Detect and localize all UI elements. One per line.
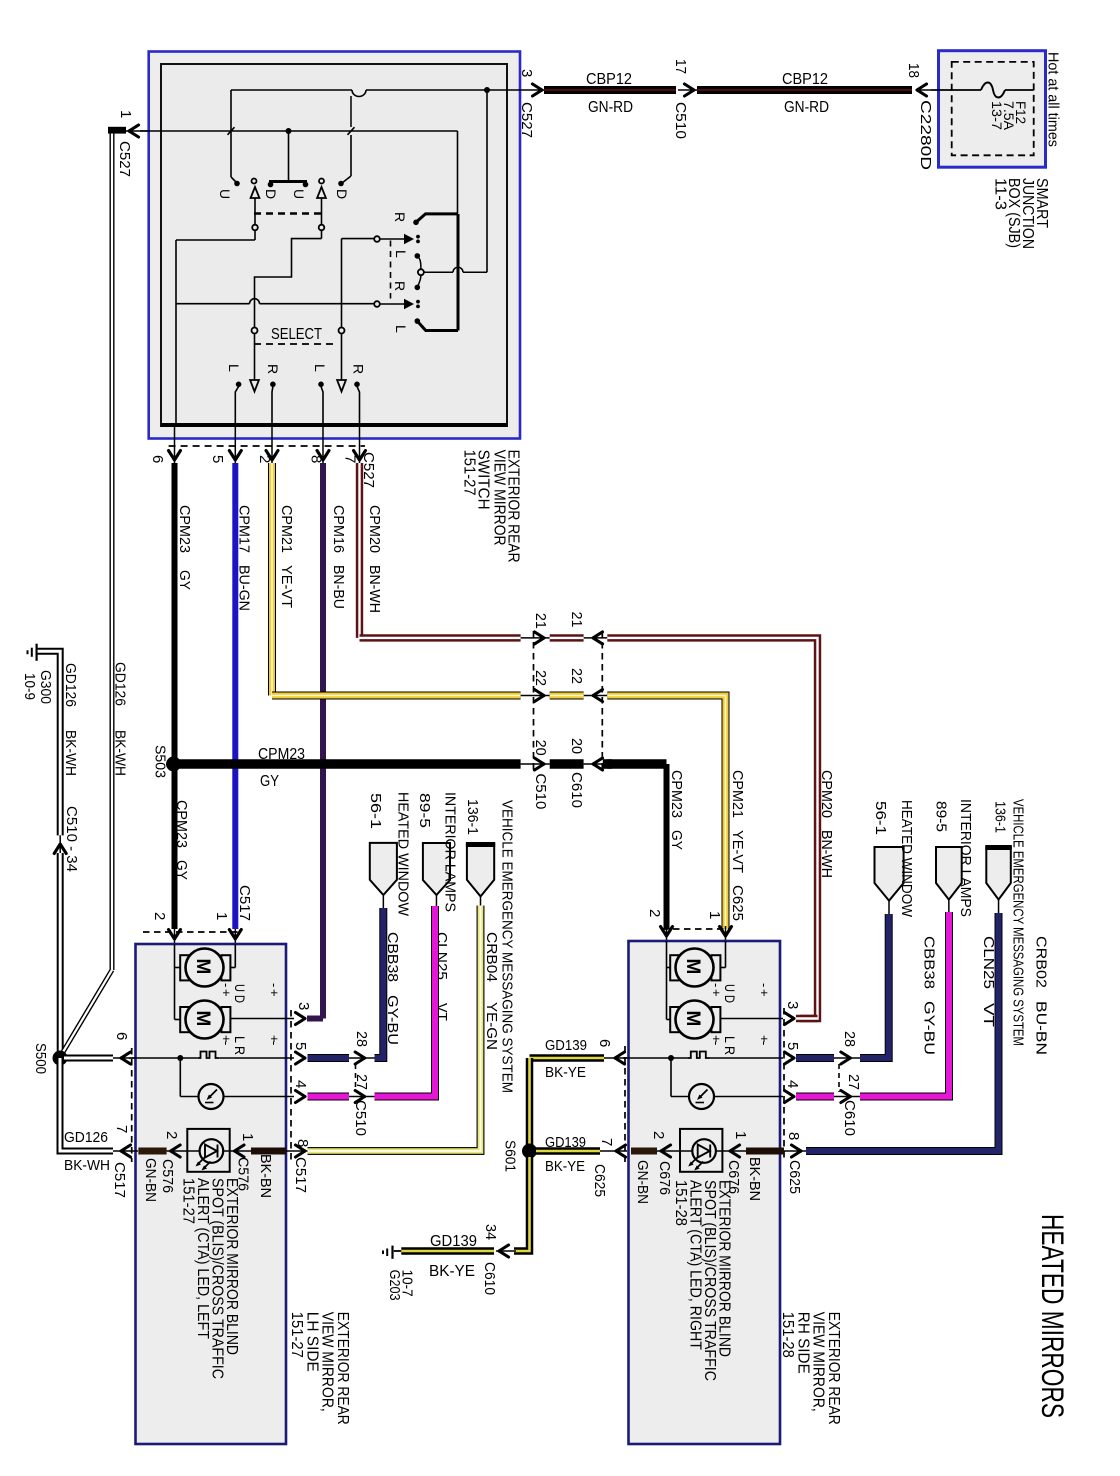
svg-text:GD126: GD126	[64, 1129, 108, 1146]
svg-text:13-7: 13-7	[989, 101, 1004, 130]
svg-text:5: 5	[209, 455, 226, 463]
RH BLIS LED box	[680, 1129, 722, 1172]
wire CRB02 BU-BN vertical	[0, 0, 1, 1]
svg-text:20: 20	[568, 738, 585, 754]
LH motor U/D	[180, 949, 230, 987]
label C676 GN-BN (RH)	[634, 1160, 673, 1204]
label 136-1 (left)	[464, 799, 481, 835]
wire CRB04 YE-GN vertical	[0, 0, 1, 1]
wire CLN25 VT (left) vertical	[0, 0, 1, 1]
label C527 below pin 7	[360, 452, 377, 488]
labels 28 (RH)	[841, 1031, 858, 1047]
label GD139 BK-YE (G203)	[429, 1233, 477, 1280]
RH motor U/D	[670, 949, 720, 987]
svg-text:1: 1	[239, 1133, 256, 1141]
LH mirror pin 3 arrow	[295, 1002, 312, 1025]
switch U/D common bracket	[268, 131, 309, 187]
svg-text:21: 21	[532, 613, 549, 629]
svg-text:VEHICLE EMERGENCY MESSAGING SY: VEHICLE EMERGENCY MESSAGING SYSTEM	[1010, 799, 1027, 1046]
wire CPM20 BN-WH row 21 (switch to C510)	[360, 634, 521, 641]
svg-text:GD126: GD126	[62, 663, 78, 707]
switch inner gray box	[161, 64, 507, 426]
label CPM23 GY pin6	[176, 505, 193, 590]
label VEHICLE EMERGENCY MESSAGING SYSTEM (right)	[1010, 799, 1027, 1046]
switch select-right wiper circle	[339, 328, 345, 334]
label CPM21 YE-VT	[278, 505, 295, 608]
svg-text:BN-WH: BN-WH	[366, 565, 383, 613]
svg-text:GY: GY	[260, 773, 279, 790]
svg-text:8: 8	[294, 1139, 311, 1147]
LH heater junction dot	[177, 1055, 183, 1061]
svg-text:GN-RD: GN-RD	[588, 99, 633, 116]
wire CRB04 YE-GN horizontal to LH pin 8	[308, 906, 481, 1152]
label C676 (RH pin1)	[725, 1160, 742, 1194]
svg-text:C610: C610	[841, 1100, 858, 1136]
svg-text:1: 1	[706, 911, 723, 919]
row 21 connector arrows	[521, 612, 608, 644]
svg-text:136-1: 136-1	[992, 801, 1009, 833]
wire CPM21 YE-VT from switch pin 2	[268, 463, 276, 696]
svg-text:BN-WH: BN-WH	[818, 830, 835, 878]
svg-text:CPM20: CPM20	[818, 770, 835, 818]
LH BLIS pin 1 arrow	[230, 1133, 256, 1157]
LH wire motor to pin 3	[230, 1018, 294, 1020]
svg-text:1: 1	[732, 1131, 749, 1139]
wire BK-BN stub (RH)	[746, 1148, 784, 1155]
RH heater element	[623, 1052, 783, 1059]
RH motor feed wires	[667, 941, 726, 1020]
svg-text:+: +	[219, 989, 234, 997]
wire CPM20 stub to RH pin 3	[796, 1015, 818, 1022]
svg-text:CPM23: CPM23	[668, 770, 685, 818]
RH motor polarity labels	[709, 983, 772, 1055]
label C517 pin7	[111, 1162, 128, 1198]
label INTERIOR LAMPS (left)	[442, 792, 459, 912]
label GD126 BK-WH (bottom)	[64, 1129, 110, 1174]
svg-text:C610: C610	[568, 772, 585, 808]
wire CLN25 VT (right) vertical	[0, 0, 1, 1]
off-page connector INTERIOR LAMPS 89-5 (left)	[423, 843, 450, 906]
switch letters U D U D	[217, 189, 350, 199]
LH BLIS pin 2 arrow	[163, 1131, 180, 1157]
LH motor feed wires	[175, 944, 236, 1020]
svg-text:C2280D: C2280D	[917, 100, 934, 170]
label CPM16 BN-BU	[330, 505, 347, 609]
svg-text:+: +	[267, 989, 282, 997]
svg-text:21: 21	[568, 612, 585, 628]
label INTERIOR LAMPS (right)	[957, 799, 974, 917]
RH mirror pin 3 arrow	[784, 1001, 801, 1025]
wire CPM23 GY bus S503 to C510	[174, 759, 521, 769]
svg-text:R: R	[351, 364, 367, 374]
label G300 10-9	[21, 670, 53, 704]
svg-text:1: 1	[213, 912, 230, 920]
switch pin number labels	[149, 455, 359, 463]
svg-text:C625: C625	[786, 1160, 803, 1194]
label CPM20 BN-WH right	[818, 770, 835, 878]
inline dashed C510 at mirror (LH)	[355, 1064, 357, 1092]
RH wire motor to pin 3	[720, 1018, 783, 1020]
svg-text:18: 18	[905, 63, 922, 78]
svg-text:S601: S601	[502, 1140, 518, 1172]
svg-text:GY-BU: GY-BU	[921, 1001, 938, 1055]
RH mirror connector dashed lines	[625, 929, 784, 1162]
switch wiper row1 contacts	[374, 234, 420, 244]
switch select wiper left triangle	[250, 334, 259, 392]
svg-text:HEATED WINDOW: HEATED WINDOW	[395, 792, 412, 917]
label CPM23 GY lower	[173, 800, 190, 880]
wire S500 to LH pin 6	[64, 1055, 135, 1062]
svg-text:8: 8	[785, 1132, 802, 1140]
LH heater element	[129, 1052, 294, 1059]
switch internal wire pin3 net	[231, 90, 522, 183]
label CBB38 GY-BU (right)	[921, 936, 938, 1055]
svg-text:GD139: GD139	[545, 1037, 587, 1054]
svg-text:CRB04: CRB04	[483, 932, 500, 982]
label CPM23 GY right	[668, 770, 685, 850]
off-page connector HEATED WINDOW 56-1 (right)	[875, 847, 904, 914]
svg-text:YE-VT: YE-VT	[278, 565, 295, 608]
svg-text:R: R	[265, 364, 281, 374]
svg-text:BK-YE: BK-YE	[545, 1064, 586, 1081]
labels 28 C510 (LH)	[353, 1031, 370, 1047]
wire GD139 BK-YE S601 down to G203	[401, 1157, 529, 1257]
svg-text:28: 28	[353, 1031, 370, 1047]
inline connector dashed line C610	[601, 631, 603, 771]
label BK-BN (RH)	[746, 1157, 763, 1201]
RH mirror pin 1 arrow	[720, 926, 732, 941]
label S503	[152, 745, 168, 778]
LH mirror pin 4 arrow	[292, 1080, 309, 1103]
label CRB04 YE-GN	[483, 932, 500, 1050]
svg-text:22: 22	[532, 670, 549, 686]
label CPM20 BN-WH	[366, 505, 383, 613]
svg-text:S500: S500	[32, 1043, 48, 1074]
svg-text:6: 6	[596, 1039, 613, 1047]
svg-text:CPM21: CPM21	[729, 770, 746, 818]
svg-text:-: -	[219, 1041, 234, 1045]
wire CPM21 row 22 middle	[550, 692, 584, 700]
label C517 (LH pin8)	[292, 1157, 309, 1193]
svg-text:YE-VT: YE-VT	[729, 830, 746, 873]
wire CPM23 GY from switch pin 6	[172, 463, 178, 764]
switch wires select contacts to pins	[235, 387, 359, 427]
label mirror pin 1 left	[213, 912, 230, 920]
connector C2280D pin 18 arrow	[905, 63, 934, 170]
switch triangle contact right (U/D motor right)	[317, 179, 326, 239]
LH mirror pin 2 arrow	[169, 929, 181, 944]
LH motor L/R	[180, 1001, 230, 1039]
wire CPM17 BU-GN from switch pin 5	[232, 463, 238, 929]
label 34 C610 (GD139)	[481, 1224, 499, 1295]
label Hot at all times	[1045, 52, 1061, 147]
switch select wiper right triangle	[337, 334, 346, 392]
svg-text:CBP12: CBP12	[586, 71, 632, 88]
svg-text:-: -	[709, 983, 724, 987]
label EXTERIOR REAR VIEW MIRROR LH SIDE 151-27	[288, 1312, 351, 1425]
svg-text:CPM17: CPM17	[236, 505, 253, 553]
row 22 connector arrows	[521, 668, 608, 702]
svg-text:136-1: 136-1	[464, 799, 481, 835]
svg-text:S503: S503	[152, 745, 168, 778]
svg-text:28: 28	[841, 1031, 858, 1047]
exterior mirror switch outer box	[149, 52, 520, 439]
wire CBB38 GY-BU (right) vertical	[0, 0, 1, 1]
wire CPM20 BN-WH from switch pin 7	[356, 463, 363, 638]
RH mirror pin 5 arrow	[784, 1042, 801, 1064]
svg-text:-: -	[267, 983, 282, 987]
svg-text:151-27: 151-27	[288, 1312, 305, 1358]
wire CPM23 row 20 middle	[550, 759, 584, 769]
svg-text:L R: L R	[722, 1036, 737, 1055]
svg-text:CPM20: CPM20	[366, 505, 383, 553]
wire CPM21 YE-VT to RH mirror pin 1	[607, 696, 725, 930]
svg-text:M: M	[192, 1011, 213, 1027]
LH thermistor	[180, 1058, 294, 1109]
svg-text:VEHICLE EMERGENCY MESSAGING SY: VEHICLE EMERGENCY MESSAGING SYSTEM	[499, 800, 516, 1093]
svg-text:+: +	[757, 989, 772, 997]
splice node S503	[166, 757, 181, 772]
svg-text:VT: VT	[980, 1003, 997, 1027]
svg-text:U D: U D	[232, 984, 247, 1003]
RH motor L/R	[670, 1001, 720, 1039]
svg-text:-: -	[267, 1041, 282, 1045]
svg-text:10-7: 10-7	[399, 1270, 415, 1297]
svg-text:89-5: 89-5	[933, 801, 950, 832]
label C576 GN-BN (LH)	[142, 1158, 176, 1202]
switch wire pin6 to wiper row2	[176, 299, 374, 304]
label GD139 BK-YE (pin7)	[545, 1134, 586, 1175]
switch node pin1 junction	[286, 128, 292, 134]
label C517 (LH mirror top)	[236, 885, 253, 921]
svg-text:R: R	[392, 281, 408, 291]
label CPM17 BU-GN	[236, 505, 253, 611]
connector C510 pin 34 arrow on GD126	[54, 806, 79, 872]
svg-text:-: -	[757, 983, 772, 987]
wire CBB38 GY-BU (left) vertical	[0, 0, 1, 1]
ground G203 symbol	[383, 1246, 401, 1259]
svg-text:C676: C676	[656, 1161, 673, 1195]
wire CPM23 GY below S503	[172, 764, 178, 929]
label mirror pin 2 left	[151, 912, 168, 920]
svg-text:INTERIOR LAMPS: INTERIOR LAMPS	[957, 799, 974, 917]
wire CPM20 row 21 middle	[550, 634, 584, 641]
svg-text:89-5: 89-5	[416, 793, 433, 828]
RH mirror box	[629, 941, 781, 1444]
wire CBB38 stub to LH pin 5	[308, 908, 384, 1064]
wire GN-BN stub (RH)	[631, 1148, 680, 1155]
svg-text:BK-YE: BK-YE	[545, 1158, 585, 1175]
svg-text:56-1: 56-1	[367, 793, 384, 829]
svg-text:C517: C517	[292, 1157, 309, 1193]
wire CRB02 BU-BN horizontal to RH pin 8	[806, 913, 999, 1151]
RH mirror pin 6 arrow	[596, 1039, 625, 1064]
splice node S500	[53, 1051, 68, 1066]
svg-text:CPM16: CPM16	[330, 505, 347, 553]
wire GD139 BK-YE RH pin6 to S601	[530, 1058, 628, 1151]
LH mirror connector dashed lines	[132, 932, 291, 1162]
svg-text:GD126: GD126	[112, 662, 128, 706]
svg-text:2: 2	[151, 912, 168, 920]
label VEHICLE EMERGENCY MESSAGING SYSTEM (left)	[499, 800, 516, 1093]
switch letters L R L R	[226, 364, 367, 374]
switch connector C527 pin 3 arrow	[518, 69, 544, 138]
svg-text:11-3: 11-3	[992, 178, 1009, 210]
label C576 (LH pin1)	[235, 1157, 252, 1191]
svg-text:GY: GY	[668, 830, 685, 850]
inline connector dashed line C510	[533, 631, 535, 771]
labels 27 C610 (RH)	[841, 1074, 862, 1136]
label 56-1 (left)	[367, 793, 384, 829]
svg-text:BN-BU: BN-BU	[330, 565, 347, 609]
svg-text:17: 17	[672, 59, 689, 74]
svg-text:151-28: 151-28	[779, 1312, 796, 1358]
LH mirror pin 1 arrow	[229, 929, 241, 944]
svg-text:M: M	[682, 959, 703, 975]
label BK-BN (LH)	[257, 1154, 274, 1198]
svg-text:BK-WH: BK-WH	[64, 1157, 110, 1174]
off-page connector VEHICLE EMERGENCY MESSAGING SYSTEM 136-1 (right)	[985, 847, 1012, 913]
label CLN25 VT (left)	[433, 932, 450, 1021]
switch internal wire pin1 net	[140, 96, 458, 213]
svg-text:151-27: 151-27	[180, 1178, 197, 1224]
svg-text:20: 20	[532, 740, 549, 756]
inline dashed C610 at mirror (RH)	[838, 1064, 840, 1092]
switch wire wiper-row1 to select-right	[342, 239, 375, 328]
svg-text:-: -	[709, 1041, 724, 1045]
wire GD126 diagonal to S500	[63, 970, 112, 1052]
svg-text:C527: C527	[116, 141, 133, 177]
svg-text:CPM21: CPM21	[278, 505, 295, 553]
label CBB38 GY-BU (left)	[384, 932, 401, 1045]
svg-text:D: D	[334, 189, 350, 199]
svg-text:M: M	[192, 959, 213, 975]
wire CBP12 GN-RD (C510 to switch pin 3)	[544, 71, 676, 116]
svg-text:2: 2	[646, 909, 663, 917]
LH mirror pin 5 arrow	[292, 1042, 309, 1064]
LH mirror box	[136, 944, 287, 1444]
svg-text:BU-BN: BU-BN	[1033, 1001, 1050, 1055]
RH thermistor	[671, 1058, 783, 1109]
wire GD126 BK-WH from C527 pin1 down left side	[110, 134, 115, 971]
wire CBP12 GN-RD (SJB to C510)	[697, 71, 912, 116]
RH BLIS pin 2 arrow	[650, 1131, 671, 1157]
svg-text:GD139: GD139	[430, 1233, 477, 1250]
svg-text:C510: C510	[672, 102, 689, 139]
LH BLIS LED box	[187, 1129, 229, 1172]
svg-text:GY: GY	[176, 570, 193, 590]
switch wiper row2 contacts	[374, 299, 420, 309]
label G203 10-7	[386, 1270, 415, 1301]
SJB internal dashed outline	[952, 62, 1034, 155]
svg-text:CLN25: CLN25	[980, 936, 997, 989]
wire GD126 BK-WH from C510-34 to S500	[57, 853, 64, 1051]
svg-text:BK-BN: BK-BN	[257, 1154, 274, 1198]
wire CPM16 stub to LH pin 3	[307, 1016, 323, 1022]
switch R contact upper with arm	[392, 212, 458, 225]
svg-text:BK-WH: BK-WH	[62, 730, 78, 776]
svg-text:BK-YE: BK-YE	[429, 1263, 475, 1280]
RH mirror pin 8 arrow	[784, 1132, 806, 1157]
svg-text:3: 3	[784, 1001, 801, 1009]
switch wire staircase to pin6	[176, 240, 255, 426]
label S500	[32, 1043, 48, 1074]
LH motor polarity labels	[219, 983, 282, 1055]
svg-text:C625: C625	[729, 885, 746, 921]
switch mechanical link dashed (L/R rows)	[390, 241, 392, 299]
LH mirror pin 6 arrow	[113, 1032, 131, 1064]
svg-text:-: -	[757, 1041, 772, 1045]
svg-text:CPM23: CPM23	[176, 505, 193, 553]
RH mirror pin 7 arrow	[598, 1138, 626, 1157]
row 20 connector arrows	[521, 738, 608, 770]
RH heater junction dot	[668, 1055, 674, 1061]
label C625 (RH pin7)	[591, 1164, 608, 1197]
connector C510 pin 17 arrow	[672, 59, 697, 139]
svg-text:CPM23: CPM23	[258, 746, 305, 763]
switch wire staircase to select-left	[255, 239, 322, 328]
svg-text:GN-RD: GN-RD	[784, 99, 829, 116]
svg-text:YE-GN: YE-GN	[483, 1002, 500, 1050]
label 56-1 (right)	[872, 801, 889, 835]
wire GN-BN stub (LH)	[138, 1148, 187, 1155]
svg-text:U D: U D	[722, 984, 737, 1003]
label C625 (RH pin8)	[786, 1160, 803, 1194]
splice node S601	[522, 1144, 537, 1159]
switch L contact with feed circle	[392, 250, 424, 291]
wire BK-BN stub (LH)	[251, 1148, 286, 1155]
svg-text:10-9: 10-9	[21, 673, 37, 700]
svg-text:VIEW MIRROR: VIEW MIRROR	[491, 450, 508, 546]
label GD139 BK-YE (pin6)	[545, 1037, 587, 1081]
LH mirror pin 7 arrow	[113, 1125, 131, 1157]
svg-text:BK-WH: BK-WH	[112, 730, 128, 776]
wire S500 down to pin 7 row	[60, 1058, 138, 1151]
svg-text:C576: C576	[159, 1159, 176, 1193]
switch connector C527 pin 1 stub and arrow	[108, 110, 150, 177]
svg-text:6: 6	[113, 1032, 130, 1040]
label C510 column	[532, 773, 549, 809]
RH mirror pin 4 arrow	[784, 1080, 801, 1103]
svg-text:5: 5	[784, 1042, 801, 1050]
svg-text:GY: GY	[173, 860, 190, 880]
svg-text:CBB38: CBB38	[921, 936, 938, 989]
svg-text:CRB02: CRB02	[1033, 936, 1050, 988]
label 89-5 (left)	[416, 793, 433, 828]
svg-text:R: R	[392, 212, 408, 222]
svg-text:CBP12: CBP12	[782, 71, 828, 88]
svg-text:34: 34	[482, 1224, 499, 1240]
off-page connector HEATED WINDOW 56-1 (left)	[370, 843, 397, 908]
svg-text:U: U	[291, 189, 307, 199]
svg-text:GN-BN: GN-BN	[142, 1158, 159, 1202]
svg-text:L: L	[393, 325, 409, 333]
switch wire circle to pin3 vertical	[424, 267, 487, 272]
svg-text:SELECT: SELECT	[271, 326, 322, 343]
SJB box (Smart Junction Box)	[939, 51, 1046, 168]
label EXTERIOR REAR VIEW MIRROR SWITCH 151-27	[461, 450, 522, 563]
svg-text:G300: G300	[37, 670, 53, 704]
svg-text:L R: L R	[232, 1036, 247, 1055]
switch triangle contact left (U/D motor left)	[251, 179, 260, 241]
svg-text:7: 7	[113, 1125, 130, 1133]
switch pin stub lines through connector	[175, 426, 360, 463]
svg-text:2: 2	[650, 1131, 667, 1139]
label CLN25 VT (right)	[980, 936, 997, 1027]
svg-text:HEATED WINDOW: HEATED WINDOW	[898, 800, 915, 918]
svg-text:2: 2	[163, 1131, 180, 1139]
off-page connector VEHICLE EMERGENCY MESSAGING SYSTEM 136-1 (left)	[466, 844, 495, 906]
